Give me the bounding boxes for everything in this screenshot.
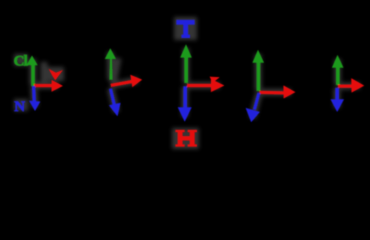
vector arrow G3-blue (down) <box>178 86 192 121</box>
svg-text:N: N <box>14 99 25 115</box>
vector arrow G4-green (up) <box>252 50 264 91</box>
vector arrow G3-green (up) <box>180 44 192 83</box>
vector arrow G2-red (right, tilted up) <box>111 75 143 88</box>
vector arrow G5-red (right) <box>338 78 364 93</box>
halo G1 <box>33 59 58 107</box>
svg-text:Cl: Cl <box>14 54 28 70</box>
label T (blue, serif) <box>176 20 194 38</box>
halo artifacts layer <box>14 17 360 149</box>
vector arrow G4-blue (down-left) <box>246 92 261 122</box>
rotation-cue chevron G1-red <box>49 69 63 81</box>
halo G5 <box>337 59 360 108</box>
vector arrow G5-green (up) <box>332 55 344 85</box>
vector arrow G2-blue (down-right) <box>109 88 121 116</box>
vector arrow G3-red (right) <box>187 77 224 93</box>
vector arrow G1-red (right) <box>34 80 63 92</box>
vector arrow G2-green (up) <box>105 48 116 80</box>
vector arrow G1-blue (down, toward N) <box>29 86 40 111</box>
vector arrow G4-red (right) <box>259 85 295 98</box>
halo G4 <box>253 54 292 118</box>
label H (red, serif) <box>175 130 197 147</box>
halo G3 <box>185 48 220 117</box>
halo G2 <box>110 52 138 112</box>
vector arrow G5-blue (down) <box>331 88 345 112</box>
vector arrow G1-green (up, toward Cl) <box>26 56 37 86</box>
